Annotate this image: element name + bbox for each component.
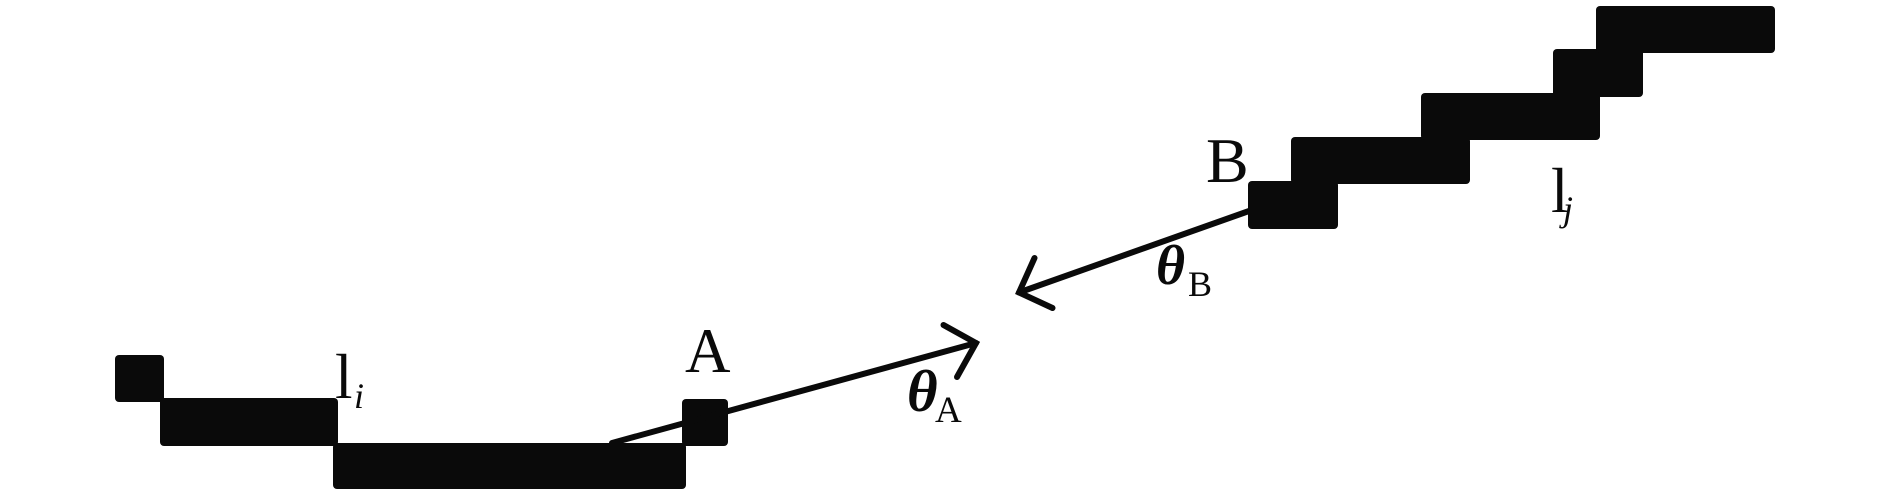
svg-text:B: B <box>1206 125 1249 196</box>
svg-text:l: l <box>335 342 353 412</box>
svg-text:A: A <box>935 390 962 431</box>
svg-text:A: A <box>685 316 731 386</box>
svg-text:θ: θ <box>907 358 938 424</box>
svg-text:B: B <box>1188 264 1212 304</box>
svg-text:θ: θ <box>1156 235 1185 297</box>
svg-text:i: i <box>354 376 364 416</box>
